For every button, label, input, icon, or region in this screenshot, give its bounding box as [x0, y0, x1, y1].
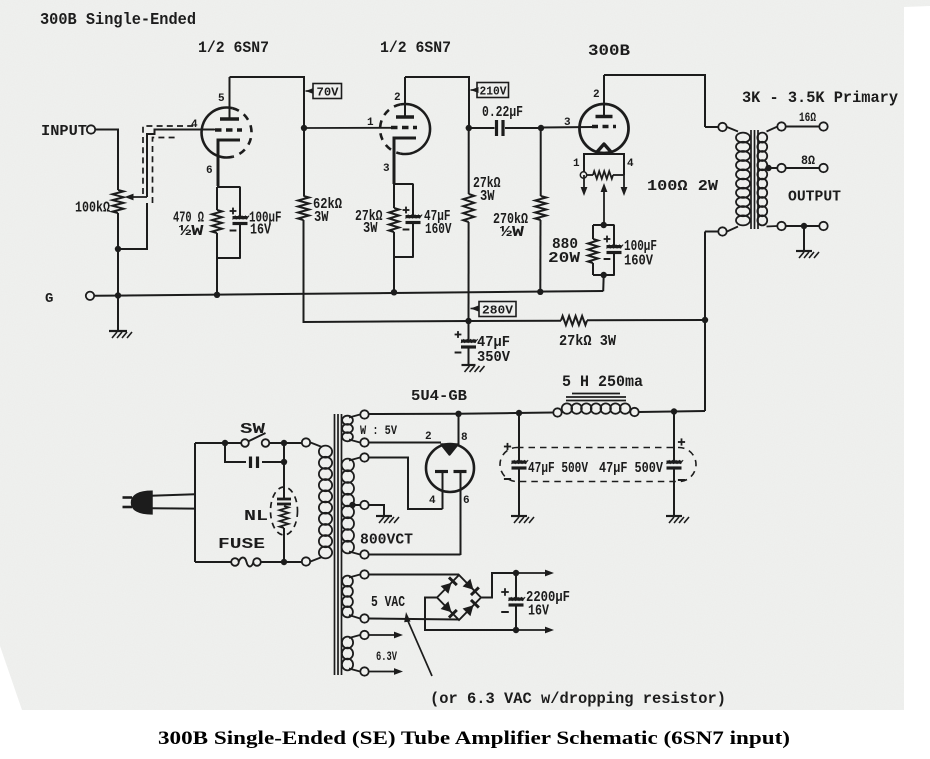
shield dashed inner: [153, 138, 179, 204]
junction NL at bottom rail: [281, 559, 287, 565]
tube V2 1/2 6SN7 envelope (solid right arc): [401, 104, 430, 154]
ground (HV center tap): [376, 515, 392, 517]
junction SW bypass right: [281, 440, 287, 446]
V2 cathode network top wire: [394, 183, 414, 185]
tube 5U4 envelope: [426, 444, 474, 492]
svg-text:800VCT: 800VCT: [360, 531, 413, 549]
junction 2200uF at DC+ rail: [513, 570, 519, 576]
svg-text:280V: 280V: [482, 304, 514, 318]
capacitor 2200uF polarity: [501, 591, 509, 593]
OPT secondary 8 ohm tap: [765, 165, 771, 171]
tube 300B filament: [597, 144, 612, 153]
svg-text:SW: SW: [240, 420, 266, 438]
svg-text:16Ω: 16Ω: [799, 110, 816, 125]
svg-text:3W: 3W: [363, 221, 378, 237]
wire HV top to pin 4: [369, 458, 443, 510]
wire 62k to 280V bus: [304, 220, 469, 322]
tube 5U4 plate pin 6: [454, 470, 467, 473]
svg-text:4: 4: [627, 158, 634, 170]
svg-text:5 H 250ma: 5 H 250ma: [562, 373, 643, 391]
PT primary top terminal: [302, 438, 310, 446]
switch SW: [241, 439, 249, 447]
svg-text:6: 6: [206, 165, 213, 177]
210V arrow: [471, 87, 479, 93]
resistor 470 ohm: [216, 187, 218, 210]
tube V1 plate: [220, 117, 239, 120]
bridge rectifier diamond: [437, 575, 481, 620]
8 ohm output terminal: [819, 164, 827, 172]
tube V2 grid pin 1 wire: [304, 127, 391, 129]
PT 5V rectifier winding: [349, 415, 360, 418]
capacitor 47uF 350V lead: [468, 321, 470, 340]
wire coupling cap to 300B grid node: [505, 127, 541, 129]
neon lamp series resistor: [280, 506, 289, 528]
capacitor 47uF 350V lower lead: [468, 348, 470, 366]
OPT secondary 16 ohm tap wire: [777, 122, 785, 130]
tube V1 1/2 6SN7 envelope (solid left arc): [202, 107, 233, 157]
capacitor 2200uF 16V plates: [509, 597, 524, 600]
svg-text:3K - 3.5K Primary: 3K - 3.5K Primary: [742, 89, 898, 107]
wire HV bottom to pin 6: [369, 554, 461, 556]
filter capacitor 1 47uF 500V plates: [512, 461, 527, 464]
wire V1 cathode to network: [217, 140, 219, 188]
junction second filter cap at B+ bus: [671, 408, 677, 414]
PT 6.3V winding: [349, 635, 360, 638]
G bus wire: [95, 291, 604, 296]
svg-text:27kΩ 3W: 27kΩ 3W: [559, 334, 616, 350]
svg-text:1/2 6SN7: 1/2 6SN7: [380, 39, 451, 57]
svg-text:INPUT: INPUT: [41, 122, 87, 140]
wire to neon lamp: [283, 462, 285, 489]
PT HV center tap: [349, 502, 355, 508]
ground (filter cap 1): [511, 515, 527, 517]
PT HV winding terminals: [360, 453, 368, 461]
svg-text:3: 3: [383, 163, 390, 175]
OPT primary bottom terminal: [718, 227, 726, 235]
wire 5VAC bottom to bridge: [369, 619, 459, 620]
bridge diode D1 (left to top): [441, 583, 452, 594]
input terminal: [87, 125, 95, 133]
wire 300B plate to OPT primary top: [604, 75, 705, 127]
junction V1 plate node to V2 grid: [301, 125, 307, 131]
V1 cathode network top wire: [217, 186, 241, 188]
wire rail to switch: [195, 442, 241, 444]
PT 5VAC terminals: [360, 570, 368, 578]
70V arrow: [306, 88, 314, 94]
ground (input): [109, 330, 127, 332]
svg-text:47µF: 47µF: [477, 335, 510, 351]
junction 280V bus at B+ riser: [702, 317, 708, 323]
capacitor 47uF 350V polarity: [455, 334, 462, 336]
svg-text:4: 4: [191, 119, 198, 131]
wire pot bottom down to G bus: [117, 213, 119, 296]
svg-text:300B: 300B: [588, 42, 630, 60]
wire bridge DC+ to heater rail: [481, 573, 509, 598]
filter capacitor 1 lead: [518, 413, 520, 461]
potentiometer 100k: [113, 190, 124, 213]
svg-text:1/2 6SN7: 1/2 6SN7: [198, 39, 269, 57]
choke core lines: [566, 400, 626, 402]
PT HV winding 800VCT: [349, 458, 360, 461]
svg-text:1: 1: [573, 158, 580, 170]
tube V1 cathode: [218, 140, 240, 186]
capacitor 47uF polarity marks: [403, 209, 410, 211]
tube V1 envelope (dashed right arc): [232, 108, 251, 157]
svg-text:5U4-GB: 5U4-GB: [411, 387, 467, 405]
hum pot 100 ohm: [587, 174, 593, 176]
tube V2 envelope (dashed left arc): [380, 104, 401, 153]
heater DC+ rail with arrow: [509, 572, 516, 574]
B+ bus wire to choke: [459, 413, 554, 414]
280V bus wire right segment: [587, 319, 705, 321]
svg-text:300B Single-Ended (SE) Tube Am: 300B Single-Ended (SE) Tube Amplifier Sc…: [158, 729, 790, 749]
filter capacitor 2 47uF 500V plates: [667, 461, 682, 464]
junction 270k at G bus: [537, 289, 543, 295]
tube 300B plate: [596, 115, 613, 119]
capacitor 47uF 350V plates: [461, 340, 476, 343]
neon lamp NL dashed envelope: [271, 487, 298, 535]
PT 6.3V terminals: [360, 631, 368, 639]
wire V2 plate to 210V node: [405, 77, 469, 128]
svg-text:OUTPUT: OUTPUT: [788, 188, 841, 206]
choke right terminal: [630, 408, 638, 416]
resistor 27k 3W (drop to 280V): [468, 128, 470, 194]
wire rail to fuse: [195, 561, 231, 563]
junction 300B cathode bottom: [601, 272, 607, 278]
junction first filter cap at B+ bus: [516, 410, 522, 416]
tube 300B grid wire pin 3: [541, 126, 592, 129]
ground (output common): [796, 250, 812, 252]
capacitor 47uF 160V plates: [406, 215, 421, 218]
svg-text:3W: 3W: [480, 189, 495, 205]
filter capacitor 1 polarity: [504, 446, 511, 448]
B+ bus wire choke to riser: [639, 411, 705, 412]
svg-text:160V: 160V: [425, 222, 452, 238]
wire V2 cathode network to G bus: [393, 257, 395, 293]
svg-text:6: 6: [463, 495, 470, 507]
wire B+ riser: [704, 232, 706, 412]
wire 5V winding bottom to pin 2: [369, 442, 441, 444]
wire 70V node down to 62k resistor: [303, 128, 305, 196]
capacitor 100uF 160V (300B) branch: [613, 225, 615, 246]
junction pin 8 at B+ bus: [455, 411, 461, 417]
V2 cathode network bottom wire: [394, 256, 414, 258]
svg-text:16V: 16V: [528, 604, 549, 620]
svg-text:2: 2: [425, 431, 432, 443]
svg-text:8: 8: [461, 432, 468, 444]
wire 210V node to coupling cap: [469, 127, 495, 129]
bridge diode D3 (left to bottom): [441, 601, 452, 612]
resistor 27k 3W (V2 cathode): [393, 184, 395, 208]
wire pin 8 into tube: [458, 414, 460, 446]
potentiometer wiper arrow: [129, 196, 147, 198]
svg-text:½W: ½W: [500, 225, 525, 241]
annotation arrow to 5 VAC: [404, 612, 410, 622]
junction output ground tap: [801, 223, 807, 229]
filament pin1 arrow down: [583, 175, 585, 189]
wire V1 plate to 70V node: [230, 77, 305, 128]
neon lamp electrodes: [277, 498, 291, 501]
svg-text:47µF 500V: 47µF 500V: [599, 461, 663, 477]
dashed capacitor block outline: [500, 448, 696, 482]
svg-text:FUSE: FUSE: [218, 535, 265, 553]
wire center tap to ground: [369, 505, 384, 516]
resistor 270k 1/2W grid leak: [540, 128, 542, 196]
filter capacitor 2 lower lead: [673, 469, 675, 517]
svg-text:47µF 500V: 47µF 500V: [528, 461, 588, 477]
filter capacitor 2 lead: [673, 412, 675, 462]
PT core: [334, 414, 336, 675]
wire input to potentiometer: [96, 129, 119, 131]
junction wiper to cathode network: [601, 222, 607, 228]
svg-text:5 VAC: 5 VAC: [371, 593, 405, 611]
280V arrow: [471, 306, 479, 312]
filament pin4 arrow down: [623, 175, 625, 189]
junction 2200uF at DC- rail: [513, 627, 519, 633]
svg-text:3: 3: [564, 117, 571, 129]
capacitor 100uF polarity marks: [230, 210, 237, 212]
wire to input ground: [117, 296, 119, 332]
280V bus wire left segment: [469, 320, 562, 322]
wire fuse to PT primary: [261, 561, 302, 563]
wire output common to ground: [803, 226, 805, 251]
svg-text:300B Single-Ended: 300B Single-Ended: [40, 11, 196, 30]
svg-text:(or 6.3 VAC w/dropping resisto: (or 6.3 VAC w/dropping resistor): [430, 690, 726, 708]
tube 300B grid dashes: [592, 125, 616, 129]
svg-text:100kΩ: 100kΩ: [75, 201, 110, 217]
6.3V heater arrow bottom: [369, 671, 396, 673]
capacitor 100uF 16V plates: [233, 216, 248, 219]
junction 47uF 350V at 280V bus: [465, 318, 471, 324]
280V boxed label: [479, 302, 516, 317]
choke left terminal: [553, 408, 561, 416]
svg-text:20W: 20W: [548, 249, 581, 267]
wire shield return to pot bottom: [118, 203, 147, 249]
svg-text:4: 4: [429, 495, 436, 507]
ground (47uF 350V): [462, 364, 476, 366]
junction V1 cathode at G bus: [214, 292, 220, 298]
svg-text:2: 2: [593, 89, 600, 101]
junction SW bypass left: [222, 440, 228, 446]
svg-text:8Ω: 8Ω: [801, 153, 815, 168]
filter capacitor 2 polarity: [678, 441, 685, 443]
wire 5V winding to B+ bus: [369, 413, 459, 415]
wire bridge DC- to heater return: [425, 598, 509, 631]
svg-text:160V: 160V: [624, 254, 653, 270]
svg-text:350V: 350V: [477, 350, 510, 366]
svg-text:16V: 16V: [250, 223, 271, 239]
svg-text:0.22µF: 0.22µF: [482, 105, 523, 121]
tube V2 cathode: [394, 138, 416, 184]
wire V1 cathode network to G bus: [216, 258, 218, 296]
ground (filter cap 2): [666, 515, 682, 517]
wire NL to bottom rail: [283, 528, 285, 562]
svg-text:1: 1: [367, 117, 374, 129]
svg-text:2: 2: [394, 92, 401, 104]
tube 5U4 plate pin 4: [435, 470, 448, 473]
svg-text:70V: 70V: [317, 86, 340, 100]
bridge diode D2 (top to right): [463, 579, 474, 590]
svg-text:NL: NL: [244, 507, 268, 525]
SW bypass capacitor: [225, 443, 246, 462]
svg-text:210V: 210V: [480, 85, 508, 99]
hum pot wiper arrow up: [601, 183, 608, 192]
capacitor 100uF 16V branch: [239, 187, 241, 217]
junction 210V node at coupling cap: [466, 125, 472, 131]
junction pot bottom return: [115, 246, 121, 252]
svg-text:5: 5: [218, 93, 225, 105]
svg-text:6.3V: 6.3V: [376, 649, 397, 664]
AC plug: [132, 491, 153, 514]
OPT secondary bottom wire: [777, 222, 785, 230]
common output terminal: [819, 222, 827, 230]
left filament terminal circle: [580, 172, 586, 178]
70V boxed label: [313, 84, 342, 99]
junction grid node 300B: [538, 125, 544, 131]
resistor 27k 3W (B+ feed): [561, 316, 587, 325]
choke 5H 250ma winding: [562, 403, 572, 413]
wire switch to PT primary: [270, 442, 302, 444]
tube V2 grid dashes: [391, 126, 417, 130]
coupling capacitor 0.22uF plates: [495, 120, 498, 136]
210V boxed label: [477, 83, 509, 98]
junction V2 cathode at G bus: [391, 289, 397, 295]
PT primary bottom terminal: [302, 557, 310, 565]
tube V1 grid dashes: [215, 128, 242, 132]
6.3V heater arrow top: [369, 634, 396, 636]
OPT core: [750, 130, 752, 229]
svg-text:W : 5V: W : 5V: [360, 423, 397, 438]
junction pot line at G bus: [115, 292, 121, 298]
G terminal: [86, 292, 94, 300]
wire 5VAC top to bridge: [369, 574, 459, 576]
300B filament box top: [584, 154, 624, 175]
tube V1 grid pin 4 wire: [190, 129, 215, 131]
300B cathode network top wire: [593, 224, 615, 226]
heater DC- rail with arrow: [509, 629, 516, 631]
svg-text:½W: ½W: [179, 224, 204, 240]
capacitor 100uF 160V (300B) plates: [607, 245, 622, 248]
OPT primary top terminal: [705, 126, 718, 128]
capacitor 2200uF 16V leads: [515, 573, 517, 598]
resistor 62k 3W: [298, 196, 309, 220]
16 ohm output terminal: [819, 122, 827, 130]
AC left rail: [194, 443, 196, 562]
PT primary winding: [311, 443, 323, 448]
AC cord wires: [151, 494, 195, 496]
junction bypass to NL: [281, 459, 287, 465]
tube 5U4 filament: [442, 445, 458, 455]
bridge diode D4 (bottom to right): [463, 605, 474, 616]
tube 300B envelope: [580, 104, 629, 153]
OPT secondary winding: [767, 127, 778, 132]
tube V2 plate: [396, 115, 414, 118]
V1 cathode network bottom wire: [217, 257, 241, 259]
filter capacitor 1 lower lead: [518, 469, 520, 517]
OPT primary winding: [727, 127, 738, 132]
shield dashed outer: [143, 126, 196, 194]
wire wiper to grid (solid): [147, 130, 214, 198]
fuse: [231, 558, 239, 566]
300B cathode network bottom wire: [593, 274, 615, 276]
svg-text:3W: 3W: [314, 210, 329, 226]
wire 300B cathode network to G bus: [602, 275, 605, 291]
resistor 880 20W: [592, 225, 594, 239]
capacitor 47uF 160V branch: [412, 184, 414, 216]
PT 5V winding terminals: [360, 410, 368, 418]
PT 5VAC winding: [349, 575, 360, 578]
svg-text:G: G: [45, 291, 53, 307]
capacitor 100uF 160V (300B) polarity: [604, 238, 611, 240]
svg-text:100Ω 2W: 100Ω 2W: [647, 179, 718, 195]
